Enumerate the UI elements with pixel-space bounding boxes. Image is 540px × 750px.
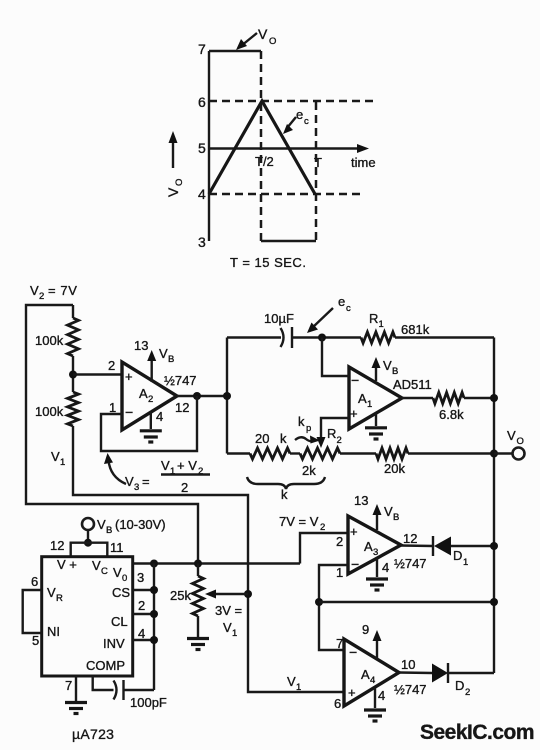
svg-text:AD511: AD511 xyxy=(393,377,432,392)
node D1 rail xyxy=(490,542,498,550)
svg-text:+: + xyxy=(125,369,133,384)
svg-text:p: p xyxy=(306,423,311,434)
svg-text:SeekIC.com: SeekIC.com xyxy=(420,721,534,744)
svg-text:6: 6 xyxy=(198,94,206,110)
wire 25k top xyxy=(197,564,199,577)
svg-text:100pF: 100pF xyxy=(130,695,167,710)
svg-text:O: O xyxy=(269,36,276,47)
svg-text:2: 2 xyxy=(465,687,470,698)
svg-text:=: = xyxy=(142,474,150,489)
triangle wave ec xyxy=(209,101,315,194)
arrow V3 xyxy=(109,460,127,484)
svg-text:CS: CS xyxy=(112,585,130,600)
svg-text:½747: ½747 xyxy=(164,373,197,388)
svg-text:B: B xyxy=(106,525,112,536)
svg-text:(10-30V): (10-30V) xyxy=(115,517,166,532)
svg-text:+ V: + V xyxy=(177,458,197,473)
svg-text:½747: ½747 xyxy=(394,556,427,571)
A3 output wire xyxy=(401,544,433,547)
svg-text:A: A xyxy=(139,386,148,401)
arrow to ec xyxy=(287,117,296,128)
svg-text:R: R xyxy=(56,593,63,604)
node divider midpoint xyxy=(69,371,77,379)
svg-text:C: C xyxy=(101,566,108,577)
svg-text:2: 2 xyxy=(39,291,44,302)
A3 inverting input wire xyxy=(319,565,348,650)
svg-text:1: 1 xyxy=(336,565,343,580)
svg-text:2: 2 xyxy=(336,534,343,549)
svg-text:2: 2 xyxy=(320,522,325,533)
node at A2 output junction xyxy=(223,392,231,400)
svg-text:2: 2 xyxy=(138,598,145,613)
VB arrow A2 xyxy=(150,358,152,382)
svg-text:2k: 2k xyxy=(302,463,316,478)
svg-text:V: V xyxy=(30,283,39,298)
svg-text:−: − xyxy=(351,372,359,388)
svg-text:2: 2 xyxy=(108,358,115,373)
ground 25k xyxy=(187,637,209,640)
svg-text:13: 13 xyxy=(134,338,148,353)
svg-text:A: A xyxy=(361,667,370,682)
svg-text:V: V xyxy=(92,558,101,573)
svg-text:B: B xyxy=(392,366,398,377)
svg-text:V: V xyxy=(51,449,60,464)
resistor 100k upper xyxy=(68,318,79,356)
svg-text:O: O xyxy=(174,179,185,186)
svg-text:4: 4 xyxy=(378,688,385,703)
svg-text:10µF: 10µF xyxy=(264,311,294,326)
resistor 25k xyxy=(193,576,204,616)
y-axis xyxy=(208,51,210,241)
svg-text:V: V xyxy=(161,458,170,473)
squiggle arrow kp xyxy=(295,437,315,441)
wire divider top xyxy=(72,305,74,318)
node 25k top xyxy=(194,560,202,568)
svg-text:V: V xyxy=(223,620,232,635)
svg-text:O: O xyxy=(517,436,524,447)
svg-text:10: 10 xyxy=(401,657,415,672)
svg-text:4: 4 xyxy=(138,626,145,641)
svg-text:c: c xyxy=(304,116,309,127)
resistor 20k right xyxy=(376,448,408,459)
bottom row wire xyxy=(227,452,250,454)
potentiometer R2 2k xyxy=(300,448,340,459)
ground A2 xyxy=(150,412,152,429)
svg-text:R: R xyxy=(327,426,336,441)
node CL xyxy=(150,610,158,618)
svg-text:A: A xyxy=(358,391,367,406)
svg-text:25k: 25k xyxy=(170,588,191,603)
node A3 feedback xyxy=(315,598,323,606)
wiper arrow 25k xyxy=(205,590,216,599)
fraction bar xyxy=(161,473,210,475)
bracket pins 12 11 xyxy=(71,543,108,557)
svg-text:D: D xyxy=(453,548,462,563)
svg-text:681k: 681k xyxy=(401,322,430,337)
svg-text:CL: CL xyxy=(111,614,128,629)
svg-text:T = 15 SEC.: T = 15 SEC. xyxy=(230,255,306,270)
diode D1 xyxy=(432,536,434,556)
underbrace k xyxy=(247,477,325,489)
svg-text:−: − xyxy=(351,556,359,572)
svg-text:c: c xyxy=(346,303,351,314)
capacitor 100pF xyxy=(122,680,124,700)
time axis xyxy=(209,147,364,149)
svg-text:R: R xyxy=(369,311,378,326)
svg-text:k: k xyxy=(298,414,305,429)
svg-text:20: 20 xyxy=(255,431,269,446)
svg-text:+: + xyxy=(350,406,358,421)
svg-text:4: 4 xyxy=(382,560,389,575)
svg-text:1: 1 xyxy=(296,682,301,693)
svg-text:V: V xyxy=(287,674,296,689)
feedback row wire xyxy=(319,601,494,603)
ground A1 xyxy=(375,413,377,426)
svg-text:1: 1 xyxy=(109,400,116,415)
VB arrow A4 xyxy=(376,638,378,659)
ground uA723 xyxy=(65,701,87,704)
V0 row wire xyxy=(133,562,300,564)
svg-text:1: 1 xyxy=(60,457,65,468)
svg-text:V: V xyxy=(125,474,134,489)
svg-text:k: k xyxy=(280,431,287,446)
left up arrow xyxy=(172,140,174,168)
A2 output wire xyxy=(177,395,227,397)
svg-text:1: 1 xyxy=(367,399,372,410)
wire to Vo terminal xyxy=(494,452,512,454)
node A1 out xyxy=(490,394,498,402)
svg-text:4: 4 xyxy=(156,409,163,424)
svg-text:100k: 100k xyxy=(35,404,64,419)
A2 feedback wire xyxy=(101,396,197,451)
resistor 100k lower xyxy=(68,392,79,426)
uA723 box xyxy=(42,557,133,676)
wire VB to bracket xyxy=(87,530,89,543)
svg-text:V: V xyxy=(258,26,268,42)
svg-text:2: 2 xyxy=(148,394,153,405)
CS stub xyxy=(133,589,154,591)
svg-text:= 7V: = 7V xyxy=(48,283,78,298)
square wave bottom solid xyxy=(261,240,316,242)
svg-text:e: e xyxy=(338,294,345,309)
svg-text:time: time xyxy=(351,155,376,170)
INV stub xyxy=(133,639,154,641)
node A2 output xyxy=(193,392,201,400)
svg-text:V: V xyxy=(159,346,168,361)
right vertical rail xyxy=(493,338,495,674)
svg-text:12: 12 xyxy=(175,400,189,415)
wire to A2 pin 2 xyxy=(73,373,122,375)
svg-text:7V = V: 7V = V xyxy=(279,514,319,529)
op-amp A3 xyxy=(348,516,401,574)
svg-text:−: − xyxy=(125,404,133,420)
svg-text:D: D xyxy=(455,678,464,693)
top wire right of R1 xyxy=(395,336,494,338)
pin 7 stub xyxy=(75,676,77,701)
A1 output wire xyxy=(402,397,433,399)
svg-text:5: 5 xyxy=(32,633,39,648)
svg-text:V: V xyxy=(383,358,392,373)
svg-text:6: 6 xyxy=(31,574,38,589)
capacitor 10uF xyxy=(281,328,284,347)
svg-text:1: 1 xyxy=(379,319,384,330)
svg-text:½747: ½747 xyxy=(394,682,427,697)
capacitor 100pF wire right xyxy=(124,689,154,691)
svg-text:V: V xyxy=(113,565,122,580)
A4 output wire xyxy=(399,671,432,674)
svg-text:COMP: COMP xyxy=(86,658,125,673)
svg-text:e: e xyxy=(296,107,303,122)
svg-text:6.8k: 6.8k xyxy=(439,407,464,422)
svg-text:9: 9 xyxy=(362,622,369,637)
svg-text:V: V xyxy=(47,585,56,600)
svg-text:0: 0 xyxy=(122,573,127,584)
node INV xyxy=(150,636,158,644)
svg-text:11: 11 xyxy=(110,540,124,555)
square wave Vo top solid xyxy=(209,50,261,52)
svg-text:6: 6 xyxy=(334,696,341,711)
svg-text:V: V xyxy=(507,428,516,443)
square wave dashed vertical at T xyxy=(315,102,318,241)
VR-NI loop wire xyxy=(23,590,42,633)
ground A4 xyxy=(374,688,376,708)
square wave dashed vertical at T/2 xyxy=(260,51,263,241)
wire plus input A1 xyxy=(321,418,349,441)
svg-text:T/2: T/2 xyxy=(255,154,274,169)
svg-text:V: V xyxy=(165,187,181,197)
svg-text:V: V xyxy=(384,504,393,519)
wire V2 top xyxy=(26,305,198,564)
left vertical of integrator loop xyxy=(226,338,228,454)
svg-text:7: 7 xyxy=(336,636,343,651)
svg-text:2: 2 xyxy=(181,480,188,495)
node V0 pin xyxy=(150,560,158,568)
svg-text:7: 7 xyxy=(65,678,72,693)
wire to A3 pin 2 xyxy=(300,533,348,564)
svg-text:V +: V + xyxy=(57,557,77,572)
top wire left of cap xyxy=(227,336,281,338)
svg-text:3V =: 3V = xyxy=(215,603,242,618)
diode D2 xyxy=(432,664,448,683)
svg-text:3: 3 xyxy=(134,482,139,493)
resistor 20k left xyxy=(250,448,290,459)
ground A3 xyxy=(376,558,378,577)
wire between resistors xyxy=(72,356,74,392)
svg-text:A: A xyxy=(364,539,373,554)
resistor R1 681k xyxy=(361,332,395,343)
svg-text:B: B xyxy=(168,354,174,365)
svg-text:100k: 100k xyxy=(35,333,64,348)
svg-text:4: 4 xyxy=(370,675,375,686)
pins vertical rail xyxy=(153,564,155,691)
svg-text:+: + xyxy=(348,685,356,700)
svg-text:4: 4 xyxy=(198,186,206,202)
svg-text:12: 12 xyxy=(403,531,417,546)
op-amp A2 xyxy=(122,362,177,430)
COMP stub wire xyxy=(93,676,114,690)
node V1 wiper junction xyxy=(244,590,252,598)
dashed level 6 xyxy=(209,100,377,103)
svg-text:k: k xyxy=(281,487,288,502)
wire 25k bottom xyxy=(197,616,199,637)
svg-text:1: 1 xyxy=(463,557,468,568)
svg-text:+: + xyxy=(350,524,358,539)
resistor 6.8k xyxy=(433,393,464,404)
VB arrow A3 xyxy=(376,512,378,530)
svg-text:2: 2 xyxy=(337,435,342,446)
CL stub xyxy=(133,613,154,615)
svg-text:−: − xyxy=(349,644,357,660)
arrow ec xyxy=(312,308,333,328)
terminal Vo xyxy=(513,448,525,460)
node Vo xyxy=(490,450,498,458)
svg-text:B: B xyxy=(393,512,399,523)
wire D1 to rail xyxy=(451,545,494,547)
wire minus input A1 xyxy=(322,338,349,377)
op-amp A4 xyxy=(344,639,399,706)
wire D2 to rail xyxy=(448,672,494,674)
VB arrow A1 xyxy=(375,365,377,381)
dashed level 4 xyxy=(209,193,365,196)
wire V1 xyxy=(73,426,344,692)
svg-text:12: 12 xyxy=(50,538,64,553)
terminal VB xyxy=(82,518,94,530)
svg-text:NI: NI xyxy=(47,624,60,639)
wire between 20k and R2 xyxy=(290,452,300,454)
node feedback rail xyxy=(490,598,498,606)
svg-text:3: 3 xyxy=(137,570,144,585)
svg-text:V: V xyxy=(97,517,106,532)
arrow to Vo xyxy=(241,33,257,46)
svg-text:3: 3 xyxy=(198,234,206,250)
wiper wire 25k xyxy=(212,593,248,595)
svg-text:7: 7 xyxy=(198,41,206,57)
wire 6.8k to rail xyxy=(464,397,494,399)
svg-text:µA723: µA723 xyxy=(72,726,114,742)
svg-text:13: 13 xyxy=(354,493,368,508)
wire R2 to 20k right xyxy=(340,452,376,454)
op-amp A1 xyxy=(349,367,402,429)
node CS xyxy=(150,586,158,594)
svg-text:5: 5 xyxy=(198,140,206,156)
svg-text:3: 3 xyxy=(373,547,378,558)
node VB bracket xyxy=(84,539,92,547)
svg-text:INV: INV xyxy=(103,636,125,651)
wire cap to R1 xyxy=(292,336,361,338)
svg-text:1: 1 xyxy=(232,628,237,639)
wire to Vo node xyxy=(408,452,494,454)
svg-text:20k: 20k xyxy=(384,461,405,476)
wiper arrow A1 xyxy=(317,437,326,448)
node ec xyxy=(318,334,326,342)
